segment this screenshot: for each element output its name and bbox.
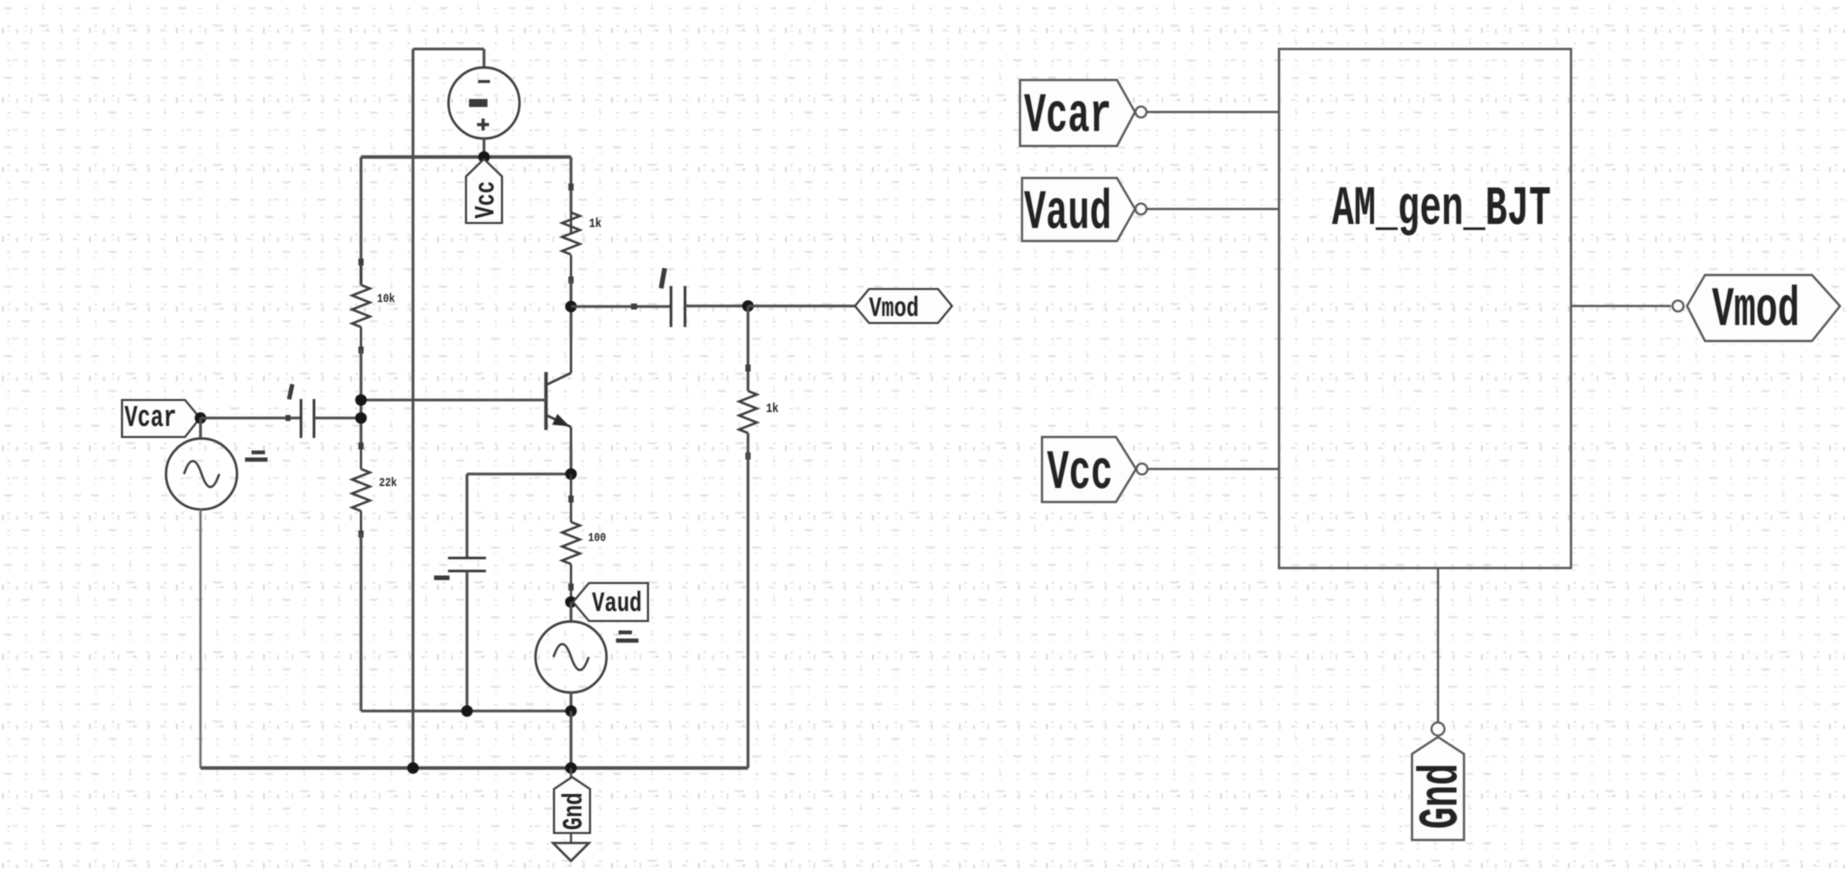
wire ground bus xyxy=(201,766,749,769)
subcircuit block U1 AM_gen_BJT xyxy=(1279,49,1571,568)
wire xyxy=(412,49,415,768)
label Vcc xyxy=(466,159,503,223)
resistor R2 xyxy=(352,443,397,538)
wire xyxy=(360,350,363,446)
pin Vcar xyxy=(1020,80,1147,149)
capacitor C2 xyxy=(631,268,685,327)
svg-text:Vcc: Vcc xyxy=(471,181,503,218)
svg-text:Vmod: Vmod xyxy=(1712,280,1800,343)
wire xyxy=(1147,208,1279,210)
pin Gnd xyxy=(1412,723,1475,841)
svg-text:100: 100 xyxy=(588,532,606,545)
wire xyxy=(361,155,571,158)
wire xyxy=(1571,305,1671,307)
transistor Q1 xyxy=(546,340,571,448)
node output xyxy=(742,300,754,312)
dc source V1 xyxy=(449,68,520,139)
node xyxy=(355,412,367,424)
capacitor C3 xyxy=(434,558,486,580)
wire xyxy=(570,157,573,212)
node emitter xyxy=(565,468,577,480)
wire xyxy=(748,305,855,308)
svg-text:Vmod: Vmod xyxy=(869,293,919,325)
wire xyxy=(314,417,361,420)
svg-text:22k: 22k xyxy=(379,477,397,490)
wire xyxy=(570,692,573,711)
node xyxy=(565,705,577,717)
wire xyxy=(571,305,671,308)
label Vmod xyxy=(855,289,952,325)
wire xyxy=(1437,568,1439,722)
ground Gnd xyxy=(553,768,591,861)
wire xyxy=(570,448,573,474)
svg-text:1k: 1k xyxy=(766,402,779,416)
wire xyxy=(1147,111,1279,113)
wire xyxy=(570,280,573,307)
resistor R4 xyxy=(562,474,606,602)
wire xyxy=(199,418,202,439)
wire xyxy=(361,399,546,402)
wire xyxy=(685,305,748,308)
svg-text:Vaud: Vaud xyxy=(1024,183,1112,246)
svg-text:Vaud: Vaud xyxy=(592,588,642,620)
pin Vaud xyxy=(1022,178,1147,246)
wire xyxy=(483,138,486,157)
wire xyxy=(467,473,571,476)
resistor R3 xyxy=(562,184,602,284)
wire xyxy=(466,571,469,711)
wire xyxy=(413,48,484,51)
node base junction xyxy=(355,394,367,406)
resistor R1 xyxy=(352,259,395,354)
capacitor C1 xyxy=(286,384,315,438)
svg-text:Gnd: Gnd xyxy=(559,793,591,830)
svg-text:Vcc: Vcc xyxy=(1047,443,1113,506)
svg-text:Vcar: Vcar xyxy=(1024,86,1112,149)
pin Vmod xyxy=(1673,275,1841,343)
svg-text:Gnd: Gnd xyxy=(1412,763,1475,829)
node xyxy=(461,705,473,717)
svg-text:10k: 10k xyxy=(377,293,395,306)
wire xyxy=(466,474,469,557)
wire xyxy=(360,157,363,285)
wire xyxy=(570,711,573,768)
wire xyxy=(483,49,486,68)
node Vcar junction xyxy=(195,412,207,424)
svg-text:Vcar: Vcar xyxy=(125,401,177,436)
resistor R5 xyxy=(739,365,779,460)
node Vcc junction xyxy=(478,151,490,163)
label Vaud xyxy=(573,583,648,621)
wire xyxy=(570,307,573,341)
pin Vcc xyxy=(1042,437,1148,506)
ac source V3 xyxy=(536,622,639,693)
wire xyxy=(199,509,201,768)
wire xyxy=(747,433,750,768)
wire xyxy=(747,306,750,391)
wire xyxy=(361,710,571,713)
wire xyxy=(360,534,363,711)
node xyxy=(407,762,419,774)
wire xyxy=(570,602,573,622)
svg-text:AM_gen_BJT: AM_gen_BJT xyxy=(1332,179,1551,242)
node collector xyxy=(565,301,577,313)
svg-text:1k: 1k xyxy=(589,217,602,231)
wire xyxy=(1148,468,1279,470)
wire xyxy=(201,417,302,420)
label Vcar xyxy=(122,400,200,437)
node xyxy=(565,762,577,774)
node Vaud junction xyxy=(565,596,577,608)
ac source V2 xyxy=(166,439,268,510)
